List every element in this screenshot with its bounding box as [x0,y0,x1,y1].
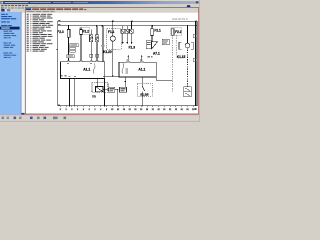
switch S1.B5 symbol [141,83,143,86]
status pink separator [0,114,200,116]
wires below A1.1 left to bottom bus [69,79,71,106]
fuse F2.2 selection outline [171,28,182,35]
title bar text [5,2,29,3]
editor content white area [26,13,198,114]
svg-text:K1.15: K1.15 [177,55,186,59]
connector label box right of Y3 [109,87,115,92]
A1.1 left pin number texts below top edge [67,63,69,64]
faint grayed toolbar marks [34,5,39,6]
junction dots on bottom bus [69,105,70,106]
frame left mid tick label [56,49,58,50]
svg-text:F2.2: F2.2 [175,30,182,34]
taskbar icons [2,117,5,120]
window bottom edge [0,121,200,122]
frame right reference boxes [193,34,196,38]
bordered wire label box on F2.3 wire [67,55,74,58]
fuse F2.3 symbol [67,29,70,37]
relay K1.20 wire from L1 [112,21,114,36]
wire from K1.20 coil down to link [112,41,114,76]
svg-text:A1.1: A1.1 [83,67,90,71]
connector label box 2 right of Y3 [120,87,127,92]
bottom right connector box [184,87,191,97]
frame left bus number labels [58,20,60,21]
editor window second band marks [27,11,35,12]
svg-text:F2.3: F2.3 [57,30,64,34]
A1.1 right top pin marks [127,61,130,62]
inter-box link wire [103,75,119,77]
fuse F2.2 symbol [171,29,174,35]
solenoid valve Y3 dashed box [92,83,108,93]
terminal strip squares row [121,29,125,33]
pin boxes above A1.1 box1 [90,54,93,57]
title bar window buttons [196,1,199,3]
relay K1.15 coil [185,43,190,48]
relay K1.20 coil circle [110,36,115,41]
ruler ticks [59,106,61,107]
switch S1.B5 wire from A1.1 right [141,77,143,83]
dashed link left of K1.15 [175,35,177,55]
ruler numbers 1-24 [60,108,61,110]
title bar app icon [1,2,3,4]
svg-text:F2.1: F2.1 [154,28,161,32]
editor window title band navy block [26,8,31,10]
solenoid valve Y3 body [96,87,104,92]
svg-text:Y3: Y3 [92,94,96,98]
left panel background [0,12,21,115]
panel header icon 2 [7,9,10,11]
left panel right border [21,12,22,115]
editor window red frame [25,7,198,114]
relay K1.15 bracket right [191,42,193,49]
wire from A1.1 right down to connector with arrow [124,77,126,87]
bottom bus line [58,105,197,107]
menu items text [1,5,3,6]
svg-text:A7.1: A7.1 [153,51,160,55]
panel header icon 1 [1,9,4,12]
control box A1.1 right [119,62,156,77]
A1.1 left top pin marks [67,61,69,62]
svg-text:F1.2: F1.2 [83,30,90,34]
pin stack dashes in box2 [126,68,129,71]
page frame left border [57,21,59,106]
switch S1.B5 dashed box [137,83,152,96]
frame right bus number labels [196,20,197,21]
wire from box1 right bottom to bus [103,79,105,106]
L-link from A1.1 right edge down and right [156,77,173,80]
editor window title band red text [32,9,39,10]
plug contact right with stacked boxes [96,26,98,62]
A1.1 left bottom pin texts [61,75,63,76]
A7.1 pin texts below [148,56,150,57]
gutter between panel and editor window [22,13,26,115]
svg-text:F1.3: F1.3 [129,45,136,49]
wire label on long wire [101,45,104,47]
wire reference boxes on F2.3 wire [70,44,79,47]
wire from S1.B5 down to bottom bus [141,96,143,105]
wire from link down to bottom bus [117,90,119,106]
fuse F1.2 wire [80,27,82,62]
toolbar row 1 icons [1,7,4,9]
small labeled box right of A7.1 [162,39,169,45]
fuse F2.3 wire [68,26,70,62]
panel selected row [0,27,20,30]
junction dots on L2 [68,25,70,27]
bus line L1 [58,20,197,22]
relay K1.15 wire [187,26,189,43]
solenoid valve Y3 wire from A1.1 [97,79,99,87]
fuse F2.1 wire [151,26,153,29]
fuse F1.2 selection outline [80,27,90,34]
bottom bus left label 20 [58,104,60,105]
control box A1.1 left [61,62,105,79]
dashed link K1.15 down to connector [187,50,189,87]
panel tree rows [1,14,5,15]
svg-text:A1.1: A1.1 [138,67,145,71]
F2.1 wire bend to contact [151,36,153,42]
fuse F1.2 symbol [80,29,83,34]
curly cable mark in box1 [93,64,95,74]
message list rows [27,14,29,15]
panel bottom tab mark [21,113,24,115]
junction dots on L1 [112,21,114,23]
svg-text:K1.20: K1.20 [103,50,112,54]
svg-text:S1.B5: S1.B5 [140,93,149,97]
page frame right border double [194,21,196,106]
status area below editor [0,115,200,122]
relay K1.20 dashed enclosure [107,29,122,50]
relay K1.15 bracket left [179,42,181,49]
wires from terminal strip down with arrows [122,33,124,43]
curly cable mark in box2 [122,63,124,73]
window top edge [0,0,200,1]
panel tree rows below selection [4,31,9,32]
svg-text:GS1.DT.01 S: GS1.DT.01 S [172,17,188,21]
links between Y3 and connectors [103,89,109,91]
dashed link from F2.2 down [172,35,174,92]
fuse F2.1 symbol [151,29,154,36]
plug contact left with stacked boxes [90,29,92,61]
window right edge [199,0,200,122]
A7.1 aux box [146,41,151,49]
toolbar blue dot icon right [187,5,191,9]
menu bar [1,4,200,6]
terminal strip stub from L1 [131,21,133,29]
terminal strip stubs from L2 [122,26,124,30]
ruler right end mark [195,108,197,110]
wire from L2 down to inter-box link [102,26,104,76]
plug arrows up into A1.1 box2 [127,55,129,62]
bus line L2 [58,25,197,27]
A7.1 contact triangle [152,42,158,49]
svg-text:F1.1: F1.1 [108,30,115,34]
A1.1 right pin number texts [126,59,128,60]
